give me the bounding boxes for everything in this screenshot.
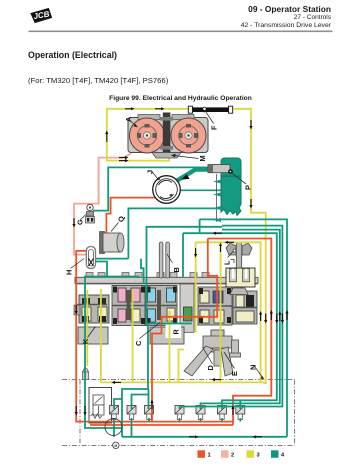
manifold flow fins bbox=[213, 180, 221, 184]
wire teal bus 3 bbox=[201, 230, 280, 409]
wire orange J to valve Q bbox=[106, 198, 155, 233]
svg-text:B: B bbox=[172, 267, 181, 272]
svg-text:E: E bbox=[230, 371, 239, 376]
gearbox cluster K bbox=[79, 295, 109, 323]
arrow salmon left down bbox=[73, 218, 75, 224]
arrow orange riser up bbox=[232, 409, 234, 415]
wire teal staircase manifold to gearbox 1 bbox=[128, 208, 222, 258]
wire orange gearbox drop bbox=[152, 239, 217, 422]
svg-text:P: P bbox=[244, 185, 253, 190]
arrow orange drop up bbox=[151, 403, 153, 409]
header rule bbox=[29, 31, 333, 33]
arrow yellow bottom right bbox=[115, 381, 121, 383]
wire yellow clutch drop K bbox=[86, 290, 88, 366]
svg-text:H: H bbox=[65, 270, 74, 275]
wire yellow gearbox center drop bbox=[220, 242, 222, 382]
pump A housing bbox=[128, 118, 208, 153]
gearbox white gap for R bbox=[166, 324, 182, 339]
motor symbol circle on chain line bbox=[113, 442, 119, 448]
wire teal staircase to solenoid 2 bbox=[132, 395, 149, 410]
wire teal bus outer to bottom bbox=[200, 219, 287, 436]
wire teal bus 4 bbox=[183, 233, 277, 409]
output bracket E bbox=[232, 340, 239, 355]
wire teal staircase to solenoid 1 bbox=[114, 399, 122, 409]
wire yellow clutch drop 3 bbox=[169, 311, 171, 382]
gearbox lower mass center bbox=[150, 327, 184, 344]
wire teal bottom bus bbox=[122, 436, 287, 438]
wire yellow clutch drop 2 bbox=[132, 290, 134, 382]
valve on pipe bbox=[208, 165, 230, 173]
svg-text:1: 1 bbox=[208, 453, 211, 459]
wire yellow fork hook bbox=[179, 350, 185, 383]
wire teal solenoid feed 4 bbox=[148, 389, 150, 409]
wire yellow bus to bundle bbox=[196, 242, 261, 382]
svg-text:4: 4 bbox=[281, 453, 285, 459]
arrow lever yellow down 1 bbox=[250, 120, 252, 126]
arrow yellow top horizontal 2 bbox=[155, 108, 161, 110]
gearbox cluster 4 bbox=[198, 287, 232, 325]
shift assembly L detent block bbox=[226, 268, 255, 287]
relief valve G bbox=[87, 204, 93, 210]
gearbox rail underline bbox=[75, 283, 258, 285]
svg-text:Q: Q bbox=[117, 216, 126, 222]
chain-dash boundary top bbox=[62, 379, 295, 381]
wire orange bottom bus 2 bbox=[90, 424, 233, 426]
section heading bbox=[28, 50, 117, 60]
manifold P bbox=[221, 158, 241, 216]
gearbox center web bbox=[180, 283, 194, 332]
pump rotor left bbox=[130, 118, 165, 153]
gearbox bearing blacks row bbox=[82, 287, 231, 325]
svg-text:N: N bbox=[249, 365, 258, 370]
wire yellow bottom horizontal bbox=[101, 381, 265, 383]
svg-text:A: A bbox=[124, 116, 133, 122]
solenoid valves row bbox=[110, 406, 245, 420]
figure caption bbox=[0, 95, 360, 102]
emphasis circle around solenoid 1 bbox=[105, 419, 122, 436]
accumulator Q bbox=[100, 232, 105, 254]
orbital unit J bbox=[153, 176, 181, 204]
wire orange top bus to bundle bbox=[208, 239, 271, 426]
arrow teal bottom bus right bbox=[189, 436, 195, 438]
leader lines bbox=[71, 111, 264, 379]
wire teal bus 2 bbox=[180, 226, 283, 409]
bundle arrows bbox=[261, 313, 287, 322]
chain-dash boundary right bbox=[294, 380, 296, 446]
drive lever F bbox=[191, 107, 234, 112]
pump center column bbox=[163, 113, 171, 159]
wire teal solenoid drains bbox=[113, 418, 115, 437]
arrow chain left bbox=[215, 379, 221, 381]
pump feet bbox=[152, 153, 181, 159]
svg-text:M: M bbox=[114, 444, 117, 448]
wire yellow pump loop left bbox=[107, 109, 189, 161]
arrow lever yellow down 2 bbox=[250, 199, 252, 205]
gearbox lower mass left bbox=[78, 327, 108, 344]
svg-text:M: M bbox=[198, 155, 207, 161]
speed sensor connector bbox=[83, 368, 89, 372]
arrow yellow left vertical up bbox=[106, 134, 108, 142]
wire teal thick pipe J to valve bbox=[173, 170, 214, 184]
gearbox shaft mid lines bbox=[77, 304, 107, 306]
wire salmon pump feed bbox=[74, 148, 135, 255]
arrow salmon horizontal bbox=[119, 157, 125, 159]
wire yellow clutch drop 4 bbox=[195, 242, 197, 332]
arrow yellow bus left bbox=[228, 241, 234, 243]
svg-text:G: G bbox=[76, 219, 85, 225]
wire teal switch H to valve Q bbox=[95, 258, 128, 260]
wire teal J right to manifold bbox=[180, 189, 222, 191]
shift assembly L stem bbox=[236, 243, 241, 289]
arrow gearbox drops bbox=[195, 248, 197, 254]
svg-text:J: J bbox=[146, 170, 155, 174]
arrow yellow horizontal low bbox=[119, 160, 125, 162]
svg-text:D: D bbox=[206, 365, 215, 371]
output fork D bbox=[211, 330, 224, 352]
wire teal staircase manifold to gearbox 2 bbox=[147, 227, 223, 324]
callout letters bbox=[65, 116, 258, 376]
svg-text:C: C bbox=[134, 340, 143, 346]
svg-text:K: K bbox=[81, 338, 90, 344]
manifold gauge line bbox=[216, 174, 218, 222]
legend bbox=[198, 450, 286, 458]
arrow orange left down bbox=[75, 305, 77, 311]
header right text block bbox=[241, 5, 331, 30]
wire orange switch H left drop and bottom bus 1 bbox=[76, 251, 233, 422]
pump rotor right bbox=[171, 118, 206, 153]
svg-text:2: 2 bbox=[231, 453, 234, 459]
svg-text:3: 3 bbox=[257, 453, 260, 459]
arrow orange left down 2 bbox=[75, 406, 77, 412]
arrow on teal pipe bbox=[181, 174, 190, 179]
chain-dash boundary bottom bbox=[62, 444, 295, 446]
manifold pivot bbox=[229, 170, 233, 174]
shift assembly L wings bbox=[226, 243, 236, 255]
chain-dash boundary left bbox=[79, 380, 81, 446]
priority valve box bbox=[89, 388, 112, 424]
switch H bbox=[86, 247, 95, 269]
svg-text:F: F bbox=[210, 125, 219, 130]
wire yellow clutch drop 1 bbox=[100, 289, 102, 382]
gearbox cluster 3 (blue clutches) bbox=[146, 286, 177, 326]
wire teal switch H lower to gearbox bbox=[95, 262, 140, 277]
logo JCB top-left bbox=[31, 9, 52, 23]
svg-text:L: L bbox=[223, 260, 232, 265]
arrow yellow top horizontal 1 bbox=[125, 108, 131, 110]
flow arrows bbox=[72, 107, 262, 438]
arrow teal bus left bbox=[216, 232, 222, 234]
wire teal gearbox left long drop to bottom bus bbox=[85, 277, 122, 429]
wire teal top feed to orbital valve bbox=[93, 167, 212, 210]
arrow teal bottom bus left bbox=[256, 436, 262, 438]
svg-text:R: R bbox=[172, 329, 181, 335]
gearbox cluster 5 bbox=[233, 291, 257, 324]
gearbox cluster 2 (pink clutches) bbox=[112, 286, 145, 326]
wire teal gearbox tail to left solenoids bbox=[122, 324, 192, 437]
wire yellow lever to bundle bbox=[234, 109, 266, 383]
applicability line bbox=[28, 76, 168, 85]
gearbox input shaft B bbox=[159, 242, 163, 278]
arrow teal left down bbox=[84, 406, 86, 412]
gearbox top rail bbox=[75, 277, 258, 283]
gearbox top bumps bbox=[86, 273, 209, 278]
